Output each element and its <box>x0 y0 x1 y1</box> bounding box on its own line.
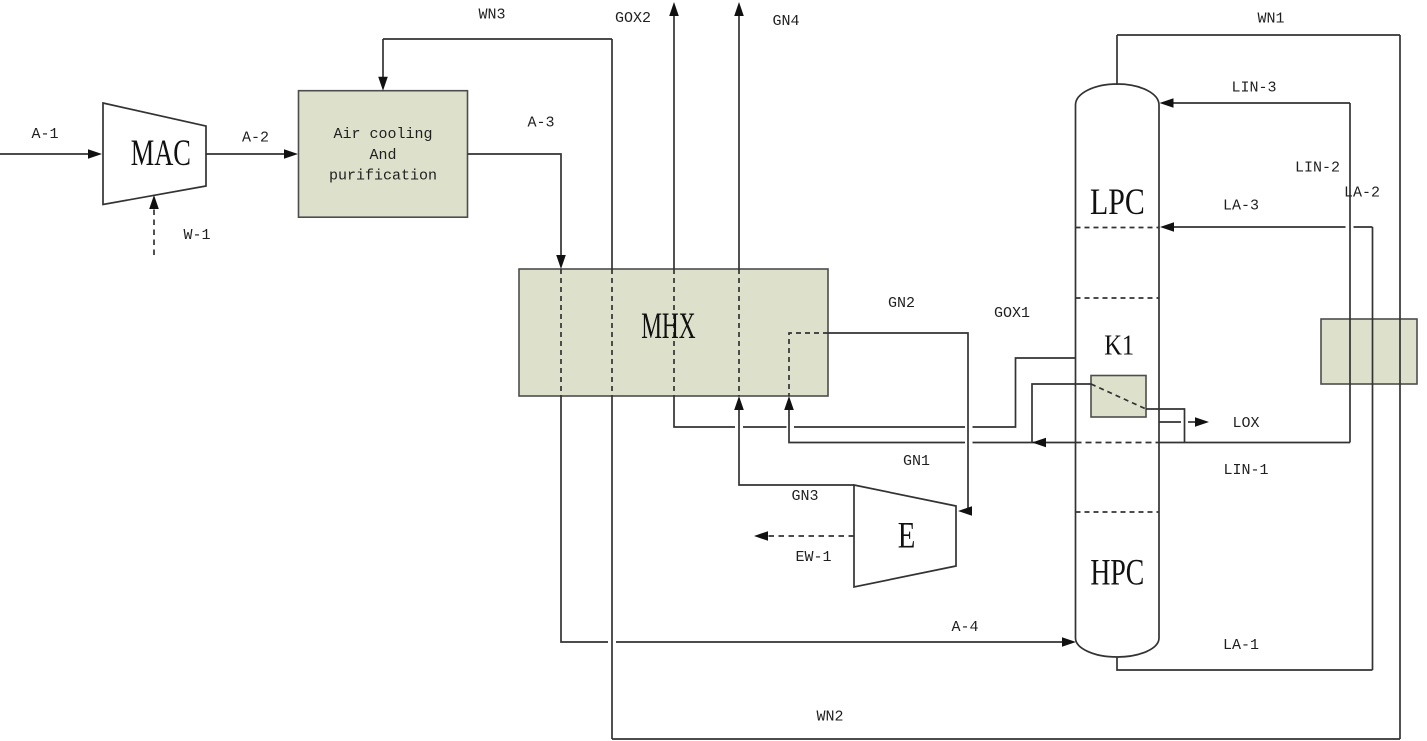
wire GOX1 seg4 up to column <box>973 358 1076 427</box>
tray dashed line 1 <box>1076 227 1160 229</box>
svg-text:W-1: W-1 <box>183 227 210 244</box>
expander E <box>854 485 956 587</box>
arrowhead LOX right <box>1195 417 1209 427</box>
svg-text:GN3: GN3 <box>791 488 818 505</box>
wire A-3 dashed inside MHX <box>560 269 562 396</box>
wire WN1 right vertical <box>1399 35 1401 739</box>
svg-text:LA-3: LA-3 <box>1223 198 1259 215</box>
arrowhead GN3 up <box>734 396 744 410</box>
wire GOX2 vertical above MHX <box>673 13 675 269</box>
wire GN1 seg2 <box>973 442 1033 444</box>
svg-text:LA-2: LA-2 <box>1344 185 1380 202</box>
arrowhead GN4 up <box>734 2 744 16</box>
wire LA-2 vertical <box>1372 227 1374 670</box>
air cooling purification box <box>299 91 468 218</box>
wire GN2 from MHX to expander <box>828 333 968 511</box>
arrowhead A-4 right <box>1062 637 1076 647</box>
column LPC/HPC vessel <box>1076 84 1160 657</box>
svg-text:WN1: WN1 <box>1257 11 1284 28</box>
wire GOX1 seg3 <box>794 426 965 428</box>
svg-text:A-2: A-2 <box>242 130 269 147</box>
svg-text:A-1: A-1 <box>31 126 58 143</box>
arrowhead EW-1 left <box>754 531 768 541</box>
svg-text:LIN-2: LIN-2 <box>1295 160 1340 177</box>
svg-text:purification: purification <box>329 168 437 185</box>
wire LA-1 from column bottom <box>1117 657 1373 670</box>
wire LIN-1 solid right of column <box>1159 442 1350 444</box>
wire A-3 from air box <box>468 154 562 258</box>
MHX main heat exchanger box <box>519 269 828 396</box>
wire LOX from K1 <box>1146 409 1185 443</box>
compressor MAC <box>103 103 206 205</box>
wire WN3 horizontal top <box>383 38 612 40</box>
wire GN4 dashed inside MHX <box>738 269 740 396</box>
wire GN2 dashed inside MHX <box>789 333 828 396</box>
arrowhead A-1 <box>88 149 102 159</box>
svg-text:GOX2: GOX2 <box>615 10 651 27</box>
svg-text:GN2: GN2 <box>888 295 915 312</box>
svg-text:WN3: WN3 <box>478 7 505 24</box>
svg-text:E: E <box>898 515 916 556</box>
arrowhead GN1 up <box>784 396 794 410</box>
wire A-3 below MHX to A-4 <box>561 396 608 642</box>
arrowhead GOX2 up <box>669 2 679 16</box>
wire WN3 vertical into air box <box>382 39 384 80</box>
svg-text:HPC: HPC <box>1090 553 1144 594</box>
wire WN1 into column top <box>1116 35 1118 85</box>
arrowhead LIN-1 left <box>1032 438 1046 448</box>
svg-text:Air cooling: Air cooling <box>333 126 432 143</box>
wire GN4 vertical above MHX <box>738 13 740 269</box>
wire GOX1 below MHX <box>674 396 735 427</box>
wire WN vertical below MHX <box>611 396 613 739</box>
arrowhead A-3 down <box>556 255 566 269</box>
svg-text:And: And <box>369 147 396 164</box>
svg-text:LA-1: LA-1 <box>1223 637 1259 654</box>
wire LA-3 <box>1171 226 1346 228</box>
wire LIN-3 <box>1171 102 1350 104</box>
wire A-1 <box>0 153 91 155</box>
svg-text:MHX: MHX <box>641 305 695 347</box>
K1 dashed diagonal <box>1091 384 1146 409</box>
wire EW-1 dashed <box>767 535 854 537</box>
svg-text:A-3: A-3 <box>527 115 554 132</box>
svg-text:GOX1: GOX1 <box>994 305 1030 322</box>
svg-text:MAC: MAC <box>131 132 191 173</box>
svg-text:LOX: LOX <box>1232 415 1259 432</box>
svg-text:LIN-1: LIN-1 <box>1223 462 1268 479</box>
svg-text:GN4: GN4 <box>772 13 799 30</box>
svg-text:K1: K1 <box>1104 329 1134 361</box>
wire LIN-1 horizontal solid left of column <box>1032 442 1076 444</box>
wire WN1 top horizontal <box>1117 34 1400 36</box>
wire GN3 below MHX to expander <box>739 407 854 485</box>
wire LIN-1 dashed through column <box>1076 442 1160 444</box>
svg-text:WN2: WN2 <box>816 709 843 726</box>
wire WN2 bottom horizontal <box>612 738 1400 740</box>
svg-text:GN1: GN1 <box>903 453 930 470</box>
wire LA-3 seg2 <box>1354 226 1373 228</box>
svg-text:A-4: A-4 <box>951 619 978 636</box>
wire WN vertical above MHX <box>611 39 613 269</box>
tray dashed line 3 <box>1076 511 1160 513</box>
wire GN1 below MHX <box>789 407 965 443</box>
tray dashed line 2 <box>1076 297 1160 299</box>
wire A-2 <box>206 153 287 155</box>
arrowhead LA-3 left <box>1160 222 1174 232</box>
arrowhead LIN-3 left <box>1160 98 1174 108</box>
wire junction to K1 <box>1032 384 1091 443</box>
wire GOX dashed inside MHX <box>673 269 675 396</box>
arrowhead WN3 down <box>378 77 388 91</box>
wire WN dashed inside MHX <box>611 269 613 396</box>
wire LIN-2 vertical <box>1349 103 1351 443</box>
wire W-1 dashed <box>153 206 155 255</box>
svg-text:LPC: LPC <box>1090 182 1145 223</box>
wire A-4 seg2 <box>616 641 1065 643</box>
svg-text:EW-1: EW-1 <box>795 549 831 566</box>
svg-text:LIN-3: LIN-3 <box>1231 80 1276 97</box>
arrowhead A-2 <box>284 149 298 159</box>
K1 condenser box <box>1091 376 1146 418</box>
wire LOX arrow stem <box>1159 421 1181 423</box>
wire GOX1 seg2 <box>743 426 787 428</box>
arrowhead GN2 left <box>958 506 972 516</box>
arrowhead W-1 <box>149 195 159 209</box>
subcooler box right <box>1321 319 1417 384</box>
wire LOX arrow stem 2 <box>1188 421 1197 423</box>
